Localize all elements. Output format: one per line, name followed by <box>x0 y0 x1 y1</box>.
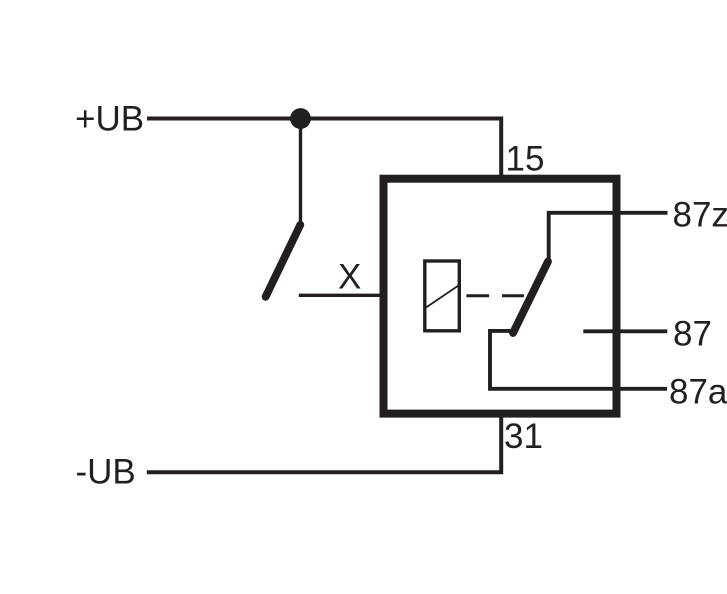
wire pin 87 stub <box>583 329 667 333</box>
relay coil <box>425 261 460 331</box>
switch X blade <box>266 225 301 297</box>
svg-text:-UB: -UB <box>76 453 136 492</box>
svg-text:87a: 87a <box>669 373 727 412</box>
relay K1 outline box <box>384 179 617 414</box>
wire contact rest to pin 87a <box>490 331 667 389</box>
wire switch to relay terminal X <box>299 294 383 297</box>
svg-text:87z: 87z <box>673 196 727 235</box>
svg-text:87: 87 <box>673 315 712 354</box>
coil diagonal <box>426 285 459 308</box>
wire pin 31 to -UB <box>147 416 501 472</box>
svg-text:31: 31 <box>504 417 543 456</box>
svg-text:15: 15 <box>506 140 545 179</box>
wire +UB to pin 15 <box>147 119 501 177</box>
svg-text:X: X <box>338 258 361 297</box>
wire contact pivot to pin 87z <box>549 213 668 260</box>
wire junction down to switch <box>299 119 302 223</box>
contact arm <box>513 262 548 334</box>
svg-text:+UB: +UB <box>75 100 144 139</box>
junction dot <box>290 108 311 129</box>
actuation dashed link <box>466 294 524 297</box>
